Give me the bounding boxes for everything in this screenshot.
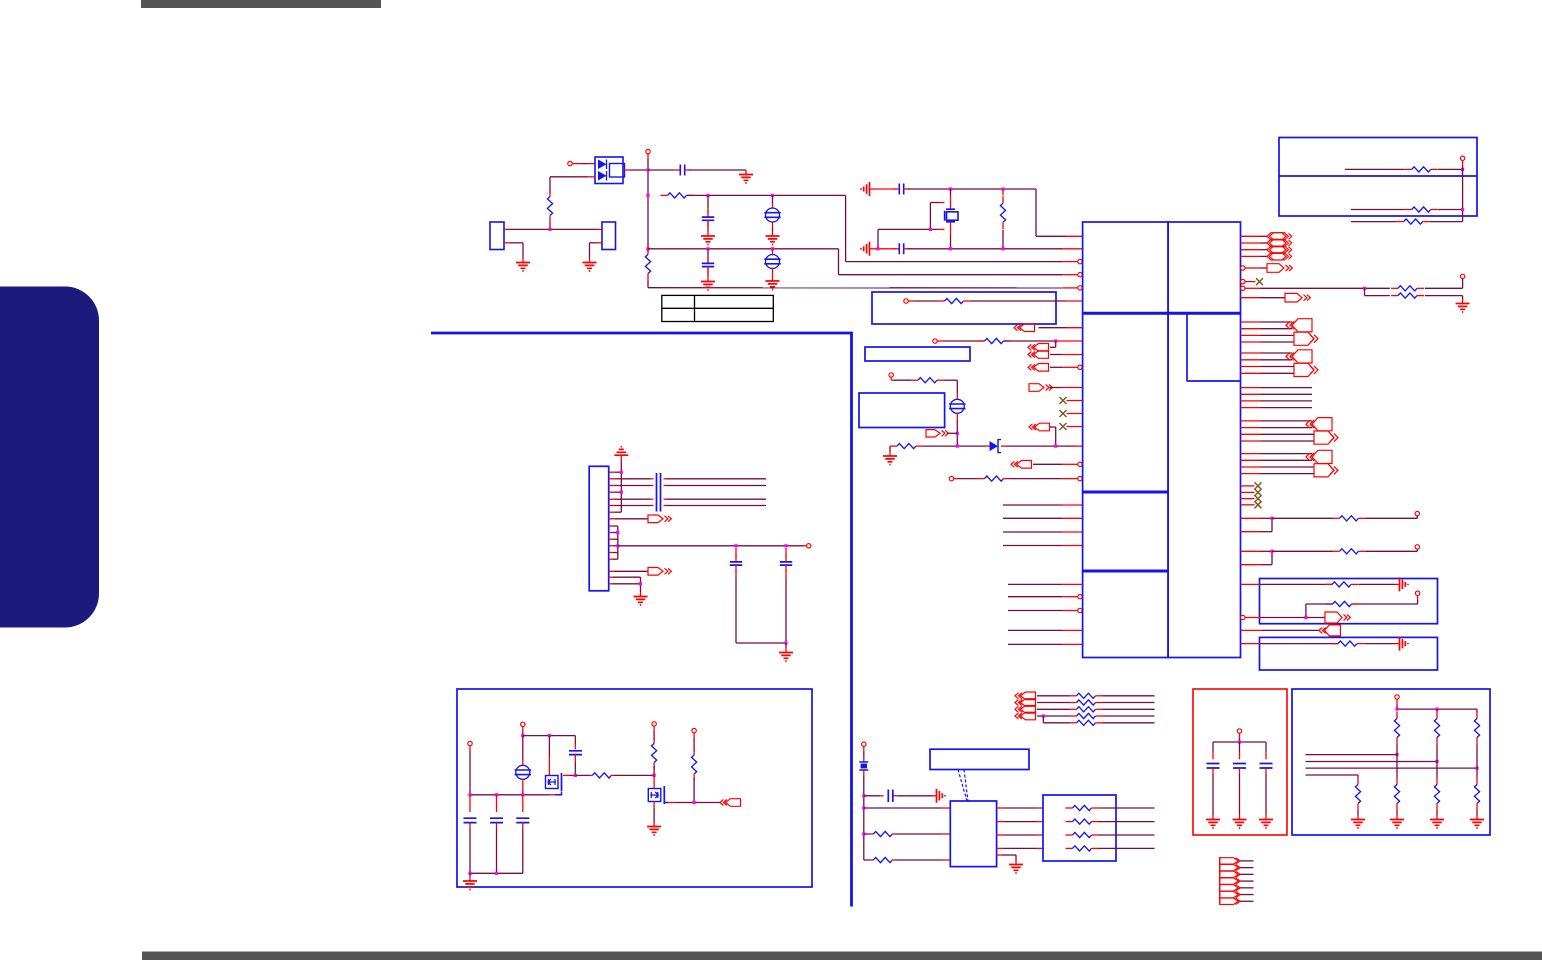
net flag row 427 [1035, 423, 1050, 431]
group A output flag [1294, 332, 1314, 345]
capacitor C4 [893, 188, 899, 190]
wire C14 to side ground [898, 795, 933, 797]
junction J1 lower [639, 582, 642, 585]
callout box E [1260, 637, 1438, 670]
network row 722 feed [1042, 716, 1044, 723]
wire to R9 [954, 478, 959, 480]
IC pin circle row 261 [1078, 259, 1082, 263]
oscillator label box [930, 749, 1029, 769]
junction bus C11 [468, 793, 471, 796]
net flag row 630 [1324, 625, 1340, 636]
wire R14 to side ground [1358, 583, 1395, 585]
junction varistor RV1 tap [771, 194, 774, 197]
junction C8 tap [734, 544, 737, 547]
ground below J1 [640, 592, 642, 597]
ground R33 [1396, 815, 1398, 820]
wire R12 to pin [1366, 517, 1418, 519]
IC pin circle row 478 [1078, 476, 1082, 480]
ground for C2 [707, 222, 709, 228]
pin circle pull-up 1 [652, 722, 656, 726]
decoupling box (red) [1193, 689, 1287, 835]
ground bus row 873 [470, 872, 523, 874]
resistor R13 [1333, 550, 1340, 552]
junction pads net [548, 228, 551, 231]
header flag row 901 [1220, 898, 1239, 904]
wire R17 to supply column [1438, 168, 1463, 170]
main vertical wire [647, 154, 649, 159]
varistor RV3 [950, 399, 964, 413]
junction gnd bus [468, 872, 471, 875]
crystal Y1 top stub [950, 189, 952, 196]
net flag output [726, 799, 741, 807]
branch to flag row 347 [1055, 341, 1057, 347]
Q1 drain wire row 775 [563, 774, 570, 776]
signal wire 2 [1306, 761, 1438, 763]
group B input flag [1292, 350, 1312, 363]
Q2 gate stub [653, 775, 655, 788]
wire R18 to column [1438, 209, 1463, 211]
capacitor C3 [707, 249, 709, 257]
wire R10 to supply pin [1425, 287, 1463, 289]
net flag row 464 [1017, 461, 1032, 469]
resistor R16 [1331, 643, 1338, 645]
pull-up resistor R30 [1436, 709, 1438, 711]
wire to ferrite bead [863, 746, 865, 752]
varistor RV1 [766, 208, 780, 222]
ground for RV2 [772, 268, 774, 277]
J1 pin bus mid [617, 526, 619, 559]
resistor R21 [653, 726, 655, 731]
VIN1 vertical wire [469, 746, 471, 751]
pin circle clock supply [862, 742, 866, 746]
junction RV3/flag row 433 [956, 432, 959, 435]
wire row 394 [1241, 393, 1261, 395]
capacitor C8 lower wire [735, 570, 737, 577]
J1 pin stubs mid [609, 525, 613, 527]
pin circle row 593 [1415, 591, 1419, 595]
junction J1 pin1 [620, 471, 623, 474]
varistor RV2 [772, 249, 774, 256]
wire row 400 [1241, 400, 1261, 402]
node pin circle row 341 [933, 339, 937, 343]
header flag row 881 [1220, 878, 1239, 884]
oscillator X1 box [950, 801, 996, 867]
wire to TVS pin1 [572, 163, 581, 165]
bus wire row 644 [1008, 643, 1063, 645]
junction crystal top [949, 187, 952, 190]
capacitor C5 [893, 248, 899, 250]
resistor R15 [1326, 603, 1333, 605]
decoupling top bus [1239, 733, 1241, 738]
bus wire row 518 [1003, 517, 1063, 519]
net flag row 297 [1241, 297, 1261, 299]
osc ground wire [997, 854, 1002, 856]
wire row 834 to R23 [864, 833, 870, 835]
wire row 335 [1241, 334, 1261, 336]
IC pin circle row 288 [1078, 286, 1082, 290]
IC U1 left section [1083, 222, 1169, 658]
wire row 617 to flag [1245, 617, 1262, 619]
no-connect row 400 [1067, 400, 1083, 402]
wire row 366 [1241, 366, 1261, 368]
junction gate Q2 [653, 774, 656, 777]
wire R2 to corner, down to IC pin row [687, 194, 846, 196]
wire TVS pin2 to R1 [588, 176, 596, 178]
junction row2 [646, 194, 649, 197]
wire R13 to pin [1366, 550, 1418, 552]
junction J1 pin4 [620, 491, 623, 494]
wire flag to pin row 367 [1050, 366, 1063, 368]
wire R6 to IC row 341 [1004, 340, 1052, 342]
wire to C14 [864, 795, 880, 797]
junction decoupling [1238, 740, 1241, 743]
crystal case staple wire [930, 202, 939, 204]
wire R24 to osc [896, 859, 943, 861]
wire corner down to IC row 236 [1035, 189, 1037, 236]
crystal Y1 [946, 209, 955, 222]
capacitor C1 [674, 169, 680, 171]
ground left of crystal row2 [870, 248, 875, 250]
side ground row 795 [932, 795, 937, 797]
IC section divider 1 [1083, 312, 1241, 315]
gate feed wire [523, 735, 576, 737]
IC pin circle row 268 [1241, 266, 1245, 270]
header flag row 874 [1220, 871, 1239, 877]
group B output flag [1294, 363, 1314, 376]
top gray header bar [141, 0, 381, 8]
network flag row 702 [1021, 699, 1036, 707]
J1 flag row 518 [609, 518, 615, 520]
callout box B [865, 347, 970, 361]
junction gnd bus 2 [495, 872, 498, 875]
IC pin circle row 610 [1078, 608, 1082, 612]
wire pin down to R15 [1417, 595, 1419, 600]
junction staple [929, 228, 932, 231]
resistor R10 [1391, 287, 1398, 289]
junction row 288 [1363, 287, 1366, 290]
wire row 460 [1241, 459, 1261, 461]
net flag row 268 [1245, 267, 1261, 269]
net flag row 433 [926, 430, 940, 437]
termination resistor box [1043, 795, 1116, 861]
connector J1 body [589, 466, 609, 591]
wire row 407 [1241, 407, 1261, 409]
pin circle decoupling [1237, 729, 1241, 733]
net flag row 327 [1020, 324, 1035, 332]
junction pair 518 [1270, 517, 1273, 520]
net flag row 347 [1034, 344, 1049, 352]
wire R1 to pad junction [549, 223, 551, 230]
J1 flag row 571 [609, 570, 615, 572]
signal wire 3 [1306, 767, 1478, 769]
no-connect row 498 [1241, 498, 1255, 500]
capacitor C16 [1239, 742, 1241, 752]
resistor R17 [1405, 168, 1412, 170]
IC pin circle row 281 [1241, 279, 1245, 283]
wire flag to IC row 327 [1039, 327, 1067, 329]
pin circle R13 [1415, 545, 1419, 549]
wire R8 to diode [923, 445, 957, 447]
supply pin circle [1460, 274, 1464, 278]
network flag row 695 [1021, 692, 1036, 700]
junction clock row 808 [862, 806, 865, 809]
left navy side tab [0, 287, 99, 628]
resistor R6 [978, 340, 985, 342]
Q2 source wire [664, 801, 668, 803]
series capacitor C7 [657, 494, 661, 512]
resistor R2 [661, 194, 668, 196]
junction sig2 [1435, 760, 1438, 763]
resistor R22 [693, 733, 695, 738]
IC section divider 3 [1083, 570, 1168, 573]
long wire row 499 [621, 498, 650, 500]
ferrite bead FB1 [859, 762, 868, 770]
junction row 169 [1461, 168, 1464, 171]
wire R23 to osc [896, 833, 943, 835]
bus wire row 610 [1008, 610, 1063, 612]
resistor R18 [1405, 209, 1412, 211]
capacitor C14 [888, 790, 893, 803]
net flag row 387 [1029, 384, 1044, 392]
J1 lower bus [640, 577, 642, 592]
IC pin circle row 274 [1078, 273, 1082, 277]
long wire row 485 [621, 485, 650, 487]
junction row 341 [1054, 339, 1057, 342]
wire diode to IC row 446 [1001, 445, 1006, 447]
junction caps gnd [784, 641, 787, 644]
branch wire to R11 [1364, 288, 1366, 295]
title block table [662, 295, 774, 321]
no-connect row 485 [1241, 485, 1255, 487]
ground R34 [1436, 815, 1438, 820]
wire row 328 [1241, 328, 1261, 330]
IC pin circle row 464 [1078, 462, 1082, 466]
Q2 drain to ground [653, 802, 655, 809]
ground for P1 [522, 258, 524, 263]
signal wire 1 [1306, 754, 1398, 756]
junction row3 [646, 247, 649, 250]
hex net flag row 236 [1241, 235, 1261, 237]
capacitor C12 [496, 795, 498, 812]
wire row2 to C5 [874, 248, 895, 250]
ground for RV1 [772, 221, 774, 228]
wire row 427 [1241, 427, 1261, 429]
VIN2 vertical wire [522, 727, 524, 731]
net flag row 617 [1325, 612, 1342, 623]
J1 pin stubs upper [609, 471, 615, 473]
pin circle R12 [1415, 511, 1419, 515]
pad P1 [490, 222, 504, 250]
ground C17 [1265, 815, 1267, 820]
group A input flag [1292, 319, 1312, 332]
bootstrap corner wire [574, 736, 576, 744]
IC pin circle row 617 [1241, 615, 1245, 619]
wire to R13 [1272, 550, 1333, 552]
Q1 source wire [555, 792, 562, 795]
no-connect row 281 [1245, 281, 1256, 283]
ground R32 [1357, 815, 1359, 820]
IC pin circle row 596 [1078, 595, 1082, 599]
callout box A [872, 292, 1056, 324]
IC section divider 2 [1083, 491, 1168, 494]
junction R4 bottom [1001, 247, 1004, 250]
resistor R5 [938, 300, 945, 302]
junction row 209 [1461, 208, 1464, 211]
wire to R7 [890, 377, 892, 380]
junction varistor RV2 tap [771, 247, 774, 250]
J1 lower pin stubs [609, 576, 613, 578]
wire row 169 to R17 [1345, 168, 1405, 170]
node pin circle in box A [904, 299, 908, 303]
wire R5 to IC [971, 300, 1067, 302]
junction sig1 [1395, 753, 1398, 756]
mosfet Q2 [648, 789, 661, 802]
callout box C [859, 393, 945, 428]
ground above J1 [620, 455, 622, 460]
wire row 373 [1241, 372, 1261, 374]
wire to R20 [575, 774, 589, 776]
group E input flag [1312, 450, 1332, 463]
wire row 808 to osc [864, 807, 942, 809]
side ground row 584 [1395, 583, 1400, 585]
header flag row 860 [1220, 858, 1239, 864]
pull-down resistor R35 [1476, 768, 1478, 777]
gate vertical wire [548, 736, 550, 757]
capacitor C9 [785, 548, 787, 557]
capacitor C17 [1265, 742, 1267, 752]
supply column wire [1462, 161, 1464, 167]
resistor R9 [978, 478, 985, 480]
junction main/TVS [646, 168, 649, 171]
junction R4 top [1001, 187, 1004, 190]
termination resistors R25-R28 [1066, 807, 1073, 809]
wire pair rows 551/564 [1241, 550, 1261, 552]
wire row1 to C4 [874, 188, 895, 190]
group D input flag [1312, 418, 1332, 431]
capacitor C13 [522, 795, 524, 812]
group D output flag [1314, 431, 1334, 444]
resistor R23 [873, 831, 892, 836]
capacitor C9 lower wire [785, 570, 787, 577]
node pin circle row 478 [949, 476, 953, 480]
wire TVS pin3 to main node [623, 169, 631, 171]
side ground row 643 [1395, 643, 1400, 645]
wire row3 corner down to IC row 274 [838, 249, 840, 275]
net flag row 354 [1034, 351, 1049, 359]
supply pin circle top right [1460, 156, 1464, 160]
wire row to C1 [648, 169, 674, 171]
node pin circle row 380 [889, 373, 893, 377]
wire row3 right [648, 248, 839, 250]
bus wire row 630 [1008, 629, 1063, 631]
net pin circle row 545 [807, 544, 811, 548]
pin circle pull-up 2 [692, 728, 696, 732]
junction staple bottom [876, 247, 879, 250]
wire C1 to ground [689, 169, 746, 171]
hex net flag row 249 [1241, 249, 1261, 251]
network flag row 716 [1021, 712, 1036, 720]
no-connect row 413 [1067, 413, 1083, 415]
zener diode D2 [990, 441, 999, 451]
callout box F [1279, 138, 1477, 217]
series capacitor C6 [657, 473, 661, 494]
bus wire row 505 [1003, 504, 1063, 506]
long wire row 505 [621, 505, 650, 507]
section divider line [431, 333, 852, 907]
junction clock row 795 [862, 794, 865, 797]
pin circle VIN1 [468, 741, 472, 745]
wire R7 to RV3 [937, 379, 944, 381]
resistor R1 [549, 190, 551, 197]
pull-down resistor R34 [1436, 762, 1438, 778]
header flag row 894 [1220, 891, 1239, 897]
wire to varistor RV1 [772, 195, 774, 203]
ground C16 [1239, 815, 1241, 820]
label leader lines [958, 770, 967, 802]
wire flag to pin row 464 [1033, 463, 1063, 465]
wire R9 to pin row 478 [1011, 478, 1063, 480]
hex net flag row 256 [1241, 255, 1261, 257]
pull resistor box (blue) [1292, 689, 1490, 835]
osc output rows [997, 807, 1004, 809]
wire flag down to row 446 [1050, 426, 1056, 428]
ground for P2 [589, 258, 591, 263]
junction pull bus 1 [1395, 708, 1398, 711]
net flag row 367 [1034, 364, 1049, 372]
pull-up resistor R31 [1476, 712, 1478, 719]
wire row 322 [1241, 321, 1261, 323]
wire row 221 to R19 [1351, 221, 1397, 223]
wire row 441 [1241, 440, 1261, 442]
wire R19 to column end [1430, 221, 1463, 223]
wire R11 to ground [1425, 295, 1463, 297]
signal wire 4 [1306, 774, 1359, 776]
wire row 584 to R14 [1241, 583, 1261, 585]
wire row 209 to R18 [1351, 209, 1405, 211]
supply bus row 794 [470, 794, 550, 796]
resistor R12 [1333, 517, 1340, 519]
wire pad-to-pad [504, 228, 510, 230]
bus wire row 532 [1003, 531, 1063, 533]
ground R35 [1476, 815, 1478, 820]
long wire row 288 [1245, 287, 1261, 289]
resistor R4 [1002, 189, 1004, 195]
junction diode row left [956, 445, 959, 448]
long wire row 545 to decoupling [618, 545, 736, 547]
wire row 434 [1241, 433, 1261, 435]
junction network [1042, 714, 1045, 717]
resistor R24 [873, 857, 892, 862]
long wire row 478 [621, 478, 650, 480]
callout box D [1260, 579, 1438, 624]
wire row 467 [1241, 466, 1261, 468]
header flag bracket [1219, 857, 1221, 904]
wire C4 to crystal net [908, 188, 1036, 190]
IC inner partition [1186, 313, 1188, 381]
ground for C1 [745, 170, 747, 175]
ground C15 [1212, 815, 1214, 820]
bottom gray footer bar [142, 952, 1542, 960]
wire RV3 down [956, 413, 958, 420]
crystal Y1 bottom stub [950, 223, 952, 236]
ground for oscillator [1015, 860, 1017, 865]
wire row 630 to flag [1241, 629, 1263, 631]
junction row 617 [1304, 616, 1307, 619]
wire row 860 to R24 [864, 859, 870, 861]
wire to R6 [937, 340, 943, 342]
capacitor C2 [707, 195, 709, 208]
node VBUS pin circle [646, 149, 650, 153]
